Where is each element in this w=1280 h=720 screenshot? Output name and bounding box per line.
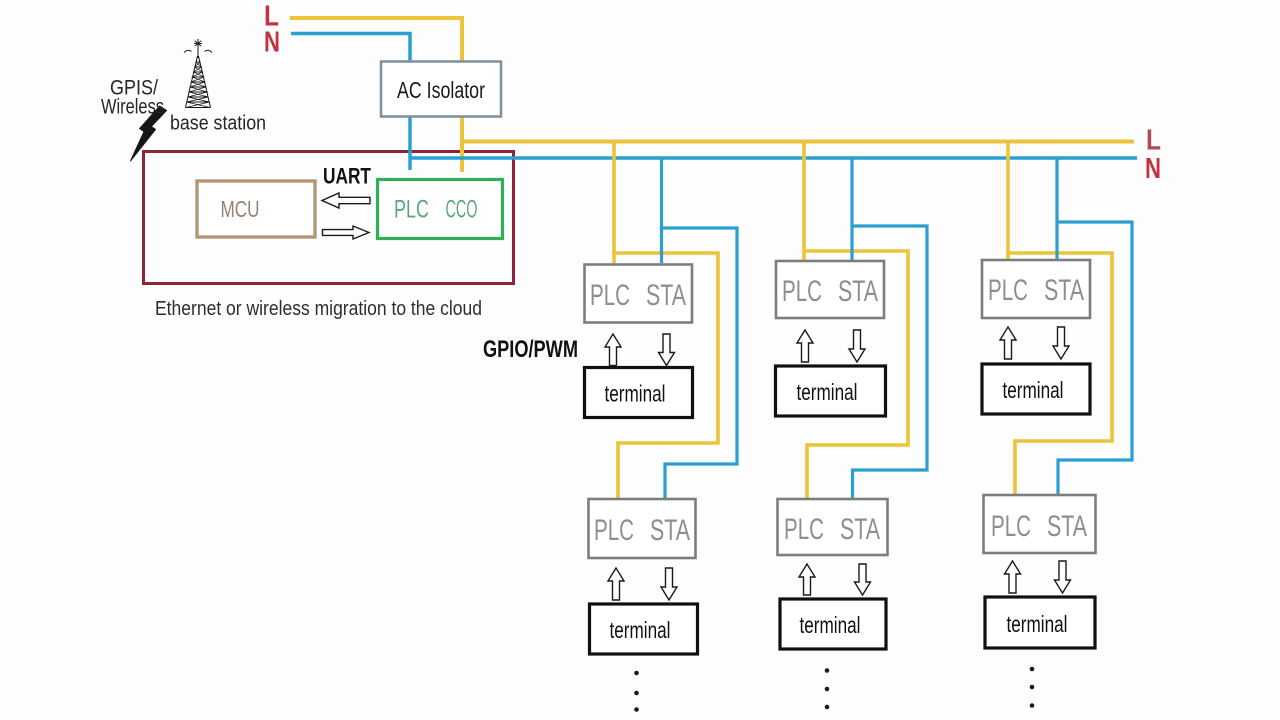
svg-text:Ethernet or wireless migration: Ethernet or wireless migration to the cl…	[155, 298, 482, 320]
PLC STA box column1 lower	[589, 499, 696, 558]
svg-text:terminal: terminal	[797, 379, 858, 405]
lightning bolt	[131, 106, 167, 161]
wire N drop column2	[852, 158, 927, 498]
svg-text:MCU: MCU	[221, 196, 260, 222]
PLC STA box column2 upper	[776, 261, 884, 318]
wire N stub into PLC STA column3 upper	[1055, 222, 1058, 259]
arrow up column3 lower	[1005, 561, 1021, 593]
wire L below AC isolator to PLC CCO	[460, 116, 464, 172]
svg-text:terminal: terminal	[800, 612, 861, 638]
arrow UART left (PLC CCO to MCU)	[322, 193, 370, 208]
arrow up column1 lower	[608, 568, 624, 600]
terminal box column3 lower	[985, 597, 1095, 648]
arrow down column3 lower	[1055, 561, 1071, 593]
svg-text:STA: STA	[838, 275, 878, 308]
svg-text:AC Isolator: AC Isolator	[397, 77, 485, 103]
svg-text:N: N	[1145, 153, 1161, 185]
wire L drop column2	[804, 142, 908, 499]
arrow up column3 upper	[1000, 327, 1016, 359]
wire N stub into PLC STA column1 upper	[660, 228, 663, 263]
wire L drop column3	[1008, 142, 1112, 495]
svg-text:STA: STA	[650, 514, 690, 547]
svg-text:PLC: PLC	[394, 196, 429, 224]
arrow down column1 upper	[659, 334, 675, 366]
svg-text:terminal: terminal	[1007, 611, 1068, 637]
svg-text:Wireless: Wireless	[101, 95, 164, 119]
wire N below AC isolator to PLC CCO	[408, 116, 412, 170]
continuation dots column1	[634, 671, 639, 712]
svg-text:L: L	[1146, 125, 1161, 157]
svg-text:base station: base station	[170, 113, 266, 135]
terminal box column3 upper	[982, 364, 1090, 414]
wire N from source into AC isolator	[291, 34, 410, 64]
arrow UART right (MCU to PLC CCO)	[323, 226, 370, 239]
PLC STA box column2 lower	[778, 499, 888, 555]
wire L stub into PLC STA column1 upper	[612, 253, 616, 263]
wire L stub into PLC STA column2 upper	[802, 251, 806, 260]
terminal box column2 lower	[780, 599, 886, 649]
svg-text:GPIO/PWM: GPIO/PWM	[483, 336, 578, 363]
continuation dots column3	[1030, 667, 1035, 708]
svg-text:PLC: PLC	[590, 279, 630, 312]
arrow up column2 lower	[799, 564, 815, 595]
arrow down column2 upper	[849, 330, 865, 362]
svg-text:PLC: PLC	[988, 274, 1028, 307]
wire N stub into PLC STA column2 upper	[850, 226, 853, 260]
svg-text:terminal: terminal	[1003, 377, 1064, 403]
arrow up column1 upper	[605, 334, 621, 366]
svg-text:STA: STA	[840, 513, 880, 546]
continuation dots column2	[825, 668, 830, 709]
svg-text:N: N	[264, 27, 280, 59]
terminal box column1 lower	[590, 604, 698, 654]
PLC STA box column3 lower	[984, 495, 1096, 553]
svg-text:PLC: PLC	[784, 513, 824, 546]
arrow down column3 upper	[1053, 327, 1069, 359]
svg-text:STA: STA	[646, 279, 686, 312]
svg-text:STA: STA	[1044, 274, 1084, 307]
svg-text:terminal: terminal	[605, 381, 666, 407]
L bus (yellow horizontal)	[462, 140, 1134, 144]
arrow down column2 lower	[855, 564, 871, 595]
svg-text:UART: UART	[323, 164, 371, 189]
cloud-gateway box (dark red enclosure)	[144, 152, 514, 284]
terminal box column2 upper	[776, 366, 886, 416]
wire L from source into AC isolator	[290, 18, 462, 63]
PLC STA box column1 upper	[585, 265, 693, 323]
arrow up column2 upper	[797, 330, 813, 362]
antenna (base station tower)	[184, 39, 212, 108]
MCU box	[197, 181, 315, 237]
svg-text:PLC: PLC	[782, 275, 822, 308]
svg-text:STA: STA	[1047, 510, 1087, 543]
arrow down column1 lower	[661, 568, 677, 600]
wire L drop column1	[614, 142, 718, 499]
svg-text:PLC: PLC	[594, 514, 634, 547]
AC Isolator box	[381, 62, 501, 117]
PLC STA box column3 upper	[982, 260, 1090, 318]
N bus (blue horizontal)	[410, 156, 1137, 160]
svg-text:CCO: CCO	[446, 196, 478, 224]
wire N drop column1	[662, 158, 738, 498]
PLC CCO box	[378, 180, 503, 239]
wire L stub into PLC STA column3 upper	[1006, 253, 1010, 259]
terminal box column1 upper	[585, 368, 693, 418]
svg-text:PLC: PLC	[991, 510, 1031, 543]
svg-text:terminal: terminal	[610, 617, 671, 643]
wire N drop column3	[1057, 158, 1132, 494]
